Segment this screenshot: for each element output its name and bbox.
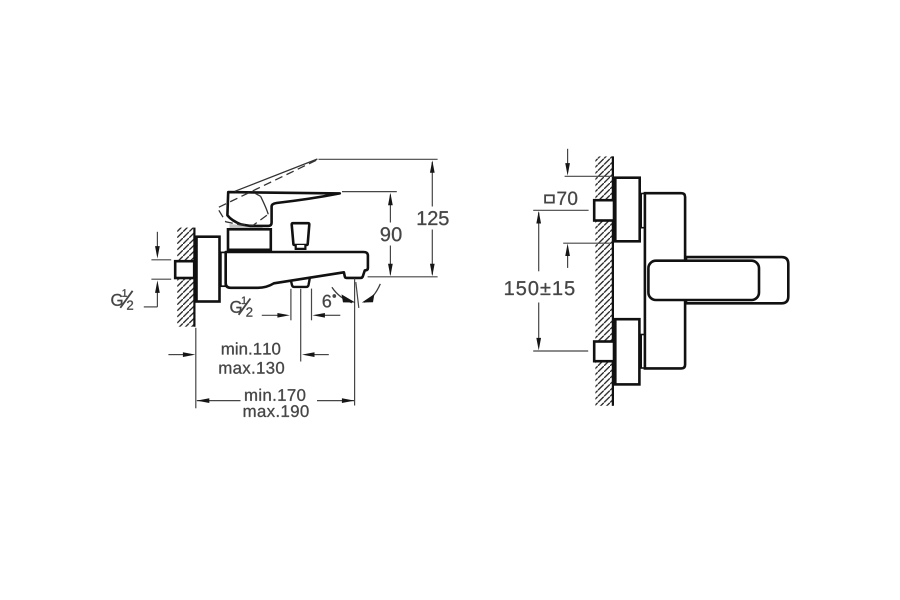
gray shading under handle <box>230 224 265 230</box>
6 deg tilted axis line <box>356 282 359 308</box>
text min.170 <box>245 389 305 401</box>
min110 right arrow tail <box>314 354 329 356</box>
text max.130 <box>219 362 284 374</box>
G1/2 nipple dim tail <box>144 306 158 308</box>
min110 right arrowhead <box>302 352 315 357</box>
G1/2 label inlet: G <box>111 294 122 306</box>
G1/2 nipple down arrowhead <box>155 246 160 259</box>
G1/2 label outlet: 2 <box>246 307 252 316</box>
spout center extension <box>354 279 356 406</box>
6 deg left arc <box>332 287 352 302</box>
G1/2 label inlet: 1 <box>122 289 127 296</box>
125 bottom arrowhead <box>430 264 435 277</box>
wall face line (right view) <box>612 156 614 405</box>
top down arrowhead <box>565 163 570 176</box>
handle lever (rest position, left view) <box>227 192 339 226</box>
outlet center extension <box>300 289 302 362</box>
min110 left arrow tail <box>168 354 184 356</box>
text max.190 <box>244 405 309 417</box>
arrowheads, left view <box>155 160 435 403</box>
wall face extension down <box>195 328 197 409</box>
dimension texts, right view <box>505 192 577 296</box>
extension line spout bottom <box>368 276 438 278</box>
handle raised position: top edge (thin solid) <box>235 159 318 191</box>
150 top arrowhead <box>536 211 541 224</box>
min170 dim line left segment <box>197 400 241 402</box>
dim line 125 lower segment <box>431 230 433 275</box>
text 125 <box>418 211 449 225</box>
top escutcheon (right view) <box>615 178 639 242</box>
ext line top connection center <box>533 209 588 211</box>
handle outer outline (right view) <box>686 257 788 303</box>
diverter stem <box>296 245 306 249</box>
G1/2 outlet fraction slash <box>239 299 251 315</box>
ext line bottom connection center <box>533 350 588 352</box>
dim line 90 lower segment <box>389 246 391 275</box>
G1/2 inlet nipple (left view) <box>175 261 194 278</box>
extension line handle top (90 top) <box>342 191 397 193</box>
text 90 <box>381 227 402 241</box>
outlet right edge extension <box>311 289 313 321</box>
dim line 90 upper segment <box>389 195 391 223</box>
bottom escutcheon (right view) <box>615 319 639 384</box>
G1/2 outlet right arrow tail <box>325 314 341 316</box>
6deg arc left arrowhead <box>342 294 356 302</box>
top arrow shaft <box>567 149 569 164</box>
G1/2 nipple up arrowhead <box>155 280 160 293</box>
90 top arrowhead <box>388 193 393 206</box>
text 150±15 <box>505 281 574 295</box>
text 6 <box>323 295 331 308</box>
ext line escutcheon bottom <box>563 242 611 244</box>
dim line 125 upper segment <box>431 162 433 207</box>
dimension texts, left view <box>111 211 448 417</box>
G1/2 nipple dim upper shaft <box>156 232 158 247</box>
extension line at raised tip (125 top) <box>319 158 438 160</box>
bottom union strip (right view) <box>641 335 645 369</box>
wall escutcheon (left view) <box>197 237 220 302</box>
G1/2 nipple dim lower shaft <box>156 292 158 307</box>
G1/2 outlet left arrowhead <box>277 313 290 318</box>
cartridge block under handle <box>228 229 271 250</box>
arrowheads, right view <box>536 163 570 350</box>
G1/2 label inlet: 2 <box>127 300 133 309</box>
degree dot of 6 <box>333 294 337 298</box>
G1/2 outlet left arrow tail <box>262 314 278 316</box>
diverter knob <box>292 223 310 245</box>
handle raised position: front edge <box>261 196 269 214</box>
top inlet nipple (right view) <box>594 200 614 220</box>
text min.110 <box>222 342 280 354</box>
top union strip (right view) <box>641 194 645 228</box>
up arrowhead at escutcheon bottom <box>565 244 570 257</box>
up arrow shaft <box>567 256 569 268</box>
min170 dim line right segment <box>317 400 354 402</box>
ext line escutcheon top <box>565 175 613 177</box>
G1/2 label outlet: G <box>230 301 241 313</box>
150 dim line lower segment <box>538 303 540 339</box>
wall hatch band (left view) <box>177 228 194 327</box>
150 bottom arrowhead <box>536 338 541 351</box>
G1/2 inlet fraction slash <box>120 291 132 308</box>
G1/2 nipple extension bottom <box>151 278 171 280</box>
wall face line (left view) <box>193 228 195 327</box>
square symbol of 70 <box>545 195 554 202</box>
G1/2 nipple extension top <box>151 259 171 261</box>
faucet body and spout (left view) <box>226 252 368 288</box>
wall hatch band (right view) <box>595 156 613 405</box>
150 dim line upper segment <box>538 212 540 271</box>
min170 left arrowhead <box>197 398 210 403</box>
outlet left edge extension <box>290 289 292 321</box>
6deg arc right arrowhead <box>362 294 375 303</box>
text 70 <box>557 192 577 205</box>
90 bottom arrowhead <box>388 264 393 277</box>
min110 left arrowhead <box>183 352 196 357</box>
shower outlet below body (left view) <box>291 278 310 287</box>
G1/2 outlet right arrowhead <box>312 313 325 318</box>
handle raised position: dashed outline <box>217 160 316 225</box>
min170 right arrowhead <box>342 398 355 403</box>
G1/2 label outlet: 1 <box>242 297 247 304</box>
union strip between escutcheon and body <box>221 252 225 286</box>
6 deg right arc <box>364 284 380 302</box>
bottom inlet nipple (right view) <box>594 342 614 362</box>
body (right view) <box>645 193 685 368</box>
handle front face (right view) <box>648 261 759 300</box>
125 top arrowhead <box>430 160 435 173</box>
